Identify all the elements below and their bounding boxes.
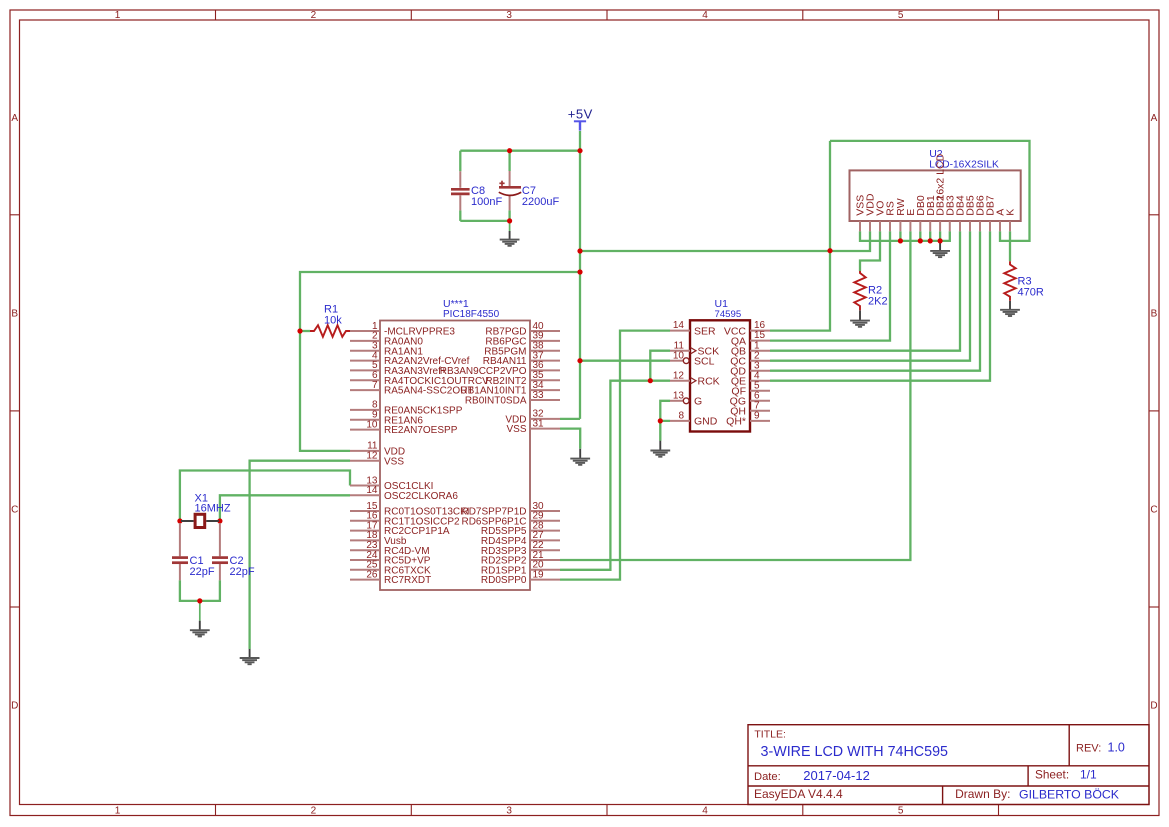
svg-text:26: 26 — [366, 569, 378, 580]
wire PIC VSS pin 12 to ground — [250, 461, 350, 649]
svg-text:13: 13 — [673, 390, 685, 401]
svg-text:5: 5 — [898, 805, 904, 816]
svg-text:14: 14 — [366, 485, 378, 496]
power flag +5V — [568, 107, 593, 131]
wire C7 bottom — [508, 210, 510, 221]
svg-text:Sheet:: Sheet: — [1035, 767, 1069, 781]
svg-text:16x2 LCD: 16x2 LCD — [935, 153, 947, 200]
IC U1 PIC18F4550 right pins — [440, 321, 560, 586]
svg-text:VSS: VSS — [506, 424, 526, 435]
capacitor C7 polarized — [499, 171, 521, 210]
wire +5V to LCD VDD — [580, 231, 870, 251]
wire R1 stub — [300, 330, 310, 332]
wire QE to LCD DB7 — [770, 231, 990, 380]
title block frame — [748, 725, 1149, 805]
wire U1 VCC riser — [770, 141, 830, 331]
capacitor C8 — [451, 171, 470, 210]
wire SCK branch — [650, 351, 670, 381]
node X1 left junction — [177, 518, 182, 523]
node G-GND junction — [658, 418, 663, 423]
wire LCD RW drop — [899, 231, 901, 241]
svg-text:SER: SER — [694, 325, 716, 337]
svg-text:3: 3 — [506, 805, 512, 816]
ground under C7 — [500, 221, 520, 246]
wire LCD VSS to gnd bus — [860, 231, 950, 241]
crystal X1 — [181, 514, 219, 527]
svg-text:RCK: RCK — [698, 375, 720, 387]
IC U1 PIC18F4550 left pins — [350, 321, 489, 586]
svg-text:1: 1 — [115, 10, 121, 21]
resistor R2 — [854, 271, 865, 310]
svg-text:14: 14 — [673, 320, 685, 331]
svg-text:2: 2 — [311, 10, 317, 21]
wire E net LCD to PIC pin21 — [560, 231, 910, 560]
svg-text:12: 12 — [673, 370, 685, 381]
node C1 C2 ground junction — [197, 598, 202, 603]
svg-text:2K2: 2K2 — [868, 296, 888, 308]
wire OSC2 pin 14 — [220, 495, 350, 521]
ground R2 — [850, 310, 870, 327]
svg-text:74595: 74595 — [715, 309, 742, 320]
wire LCD K to R3 — [1009, 231, 1011, 261]
IC U2 LCD pins — [855, 193, 1017, 231]
svg-text:10k: 10k — [324, 315, 342, 327]
svg-text:EasyEDA V4.4.4: EasyEDA V4.4.4 — [754, 787, 843, 801]
wire LCD DB0 drop — [919, 231, 921, 241]
wire VO net to R2 — [860, 231, 880, 271]
svg-text:VSS: VSS — [384, 456, 404, 467]
wire SCL net +5V to U1 pin10 — [580, 360, 670, 362]
wire QB to LCD DB4 — [770, 231, 960, 350]
node C7 bottom junction — [507, 218, 512, 223]
svg-text:RE2AN7OESPP: RE2AN7OESPP — [384, 425, 458, 436]
svg-text:REV:: REV: — [1076, 743, 1101, 755]
svg-text:3-WIRE LCD WITH 74HC595: 3-WIRE LCD WITH 74HC595 — [761, 744, 949, 760]
svg-text:GND: GND — [694, 416, 718, 428]
svg-text:C: C — [1150, 504, 1157, 515]
svg-text:+5V: +5V — [568, 107, 593, 122]
svg-text:A: A — [1151, 113, 1158, 124]
svg-text:RD0SPP0: RD0SPP0 — [481, 575, 527, 586]
svg-text:G: G — [694, 396, 702, 408]
svg-text:16MHZ: 16MHZ — [195, 502, 231, 514]
capacitor C2 — [212, 523, 228, 580]
node VCC loop junction — [827, 248, 832, 253]
svg-text:OSC2CLKORA6: OSC2CLKORA6 — [384, 491, 458, 502]
wire SER net U1 pin14 to PIC pin19 — [560, 331, 670, 580]
IC U1 74595 left pins — [670, 320, 720, 427]
node +5V LCD-VDD junction — [577, 248, 582, 253]
svg-text:D: D — [1150, 701, 1157, 712]
svg-text:3: 3 — [506, 10, 512, 21]
svg-text:B: B — [1151, 308, 1158, 319]
IC U1 74595 box — [690, 320, 750, 431]
svg-text:TITLE:: TITLE: — [754, 729, 786, 741]
wire cap bottom — [460, 220, 509, 222]
node bus DB1 junction — [928, 238, 933, 243]
ground crystal caps — [190, 601, 210, 637]
svg-text:12: 12 — [366, 451, 378, 462]
wire C1 bottom joint — [180, 580, 220, 601]
wire C8 left top — [459, 151, 461, 172]
wire PIC pin31 VSS to ground — [560, 429, 580, 449]
IC PIC pin 33 stub — [530, 399, 560, 401]
svg-text:C: C — [11, 504, 18, 515]
wire G branch — [660, 401, 670, 421]
svg-text:RB0INT0SDA: RB0INT0SDA — [465, 396, 527, 407]
svg-text:22pF: 22pF — [190, 566, 215, 578]
svg-text:1: 1 — [115, 805, 121, 816]
IC U1 74595 right pins — [724, 320, 770, 427]
svg-text:RC7RXDT: RC7RXDT — [384, 575, 431, 586]
svg-text:9: 9 — [754, 411, 760, 422]
wire OSC1 pin 13 — [180, 471, 350, 522]
svg-text:B: B — [11, 308, 18, 319]
wire QD to LCD DB6 — [770, 231, 980, 370]
svg-text:100nF: 100nF — [471, 196, 502, 208]
svg-text:4: 4 — [702, 805, 708, 816]
svg-text:D: D — [11, 701, 18, 712]
node SCL junction — [577, 358, 582, 363]
svg-text:Date:: Date: — [754, 771, 781, 783]
svg-text:8: 8 — [678, 411, 684, 422]
svg-text:2200uF: 2200uF — [522, 196, 560, 208]
node X1 right junction — [217, 518, 222, 523]
wire cap top — [460, 150, 580, 152]
wire +5V to PIC VDD pin 11 — [300, 272, 580, 451]
wire LCD DB1 drop — [929, 231, 931, 241]
wire RS net to U1 QA — [770, 231, 890, 340]
wire C7 top — [508, 151, 510, 171]
svg-text:10: 10 — [673, 350, 685, 361]
svg-text:31: 31 — [533, 418, 545, 429]
svg-text:A: A — [11, 113, 18, 124]
svg-text:470R: 470R — [1018, 287, 1044, 299]
svg-text:5: 5 — [898, 10, 904, 21]
node +5V MCU-VDD junction — [577, 269, 582, 274]
svg-text:10: 10 — [366, 419, 378, 430]
svg-text:2: 2 — [311, 805, 317, 816]
resistor R3 — [1004, 261, 1015, 301]
svg-text:1/1: 1/1 — [1080, 767, 1097, 781]
svg-text:SCL: SCL — [694, 355, 715, 367]
svg-text:GILBERTO BÖCK: GILBERTO BÖCK — [1019, 788, 1120, 802]
svg-text:33: 33 — [533, 390, 545, 401]
node bus RW junction — [898, 238, 903, 243]
wire LCD DB2 drop — [939, 231, 941, 241]
svg-text:7: 7 — [372, 380, 378, 391]
node bus DB2 junction — [938, 238, 943, 243]
ground LCD data bus — [930, 241, 950, 257]
svg-text:PIC18F4550: PIC18F4550 — [443, 309, 500, 320]
svg-text:4: 4 — [702, 10, 708, 21]
wire +5V loop top — [830, 141, 1030, 241]
wire QC to LCD DB5 — [770, 231, 970, 360]
IC U2 LCD-16X2SILK box — [850, 170, 1021, 221]
wire U1 GND pin8 — [660, 421, 670, 441]
node R1 junction — [297, 328, 302, 333]
svg-text:19: 19 — [533, 569, 545, 580]
node SCK-RCK junction — [648, 378, 653, 383]
svg-text:QH*: QH* — [726, 416, 746, 428]
ground R3 — [1000, 301, 1020, 316]
resistor R1 — [310, 325, 350, 337]
node C7 top junction — [507, 148, 512, 153]
wire C8 left bottom — [459, 210, 461, 221]
wire +5V vertical rail — [579, 131, 581, 419]
svg-text:K: K — [1005, 209, 1017, 216]
ground PIC VSS pin12 — [240, 649, 260, 664]
node +5V caps junction — [577, 148, 582, 153]
node bus DB0 junction — [918, 238, 923, 243]
svg-text:Drawn By:: Drawn By: — [955, 787, 1010, 801]
IC U1 PIC18F4550 box — [380, 321, 530, 591]
ground PIC VSS pin31 — [570, 449, 590, 465]
ground U1 GND — [650, 421, 670, 457]
svg-text:2017-04-12: 2017-04-12 — [803, 768, 870, 783]
svg-text:22pF: 22pF — [230, 566, 255, 578]
capacitor C1 — [172, 523, 188, 580]
wire RCK net to PIC pin20 — [560, 381, 670, 570]
wire PIC pin32 VDD — [560, 418, 580, 420]
svg-text:1.0: 1.0 — [1108, 741, 1125, 755]
